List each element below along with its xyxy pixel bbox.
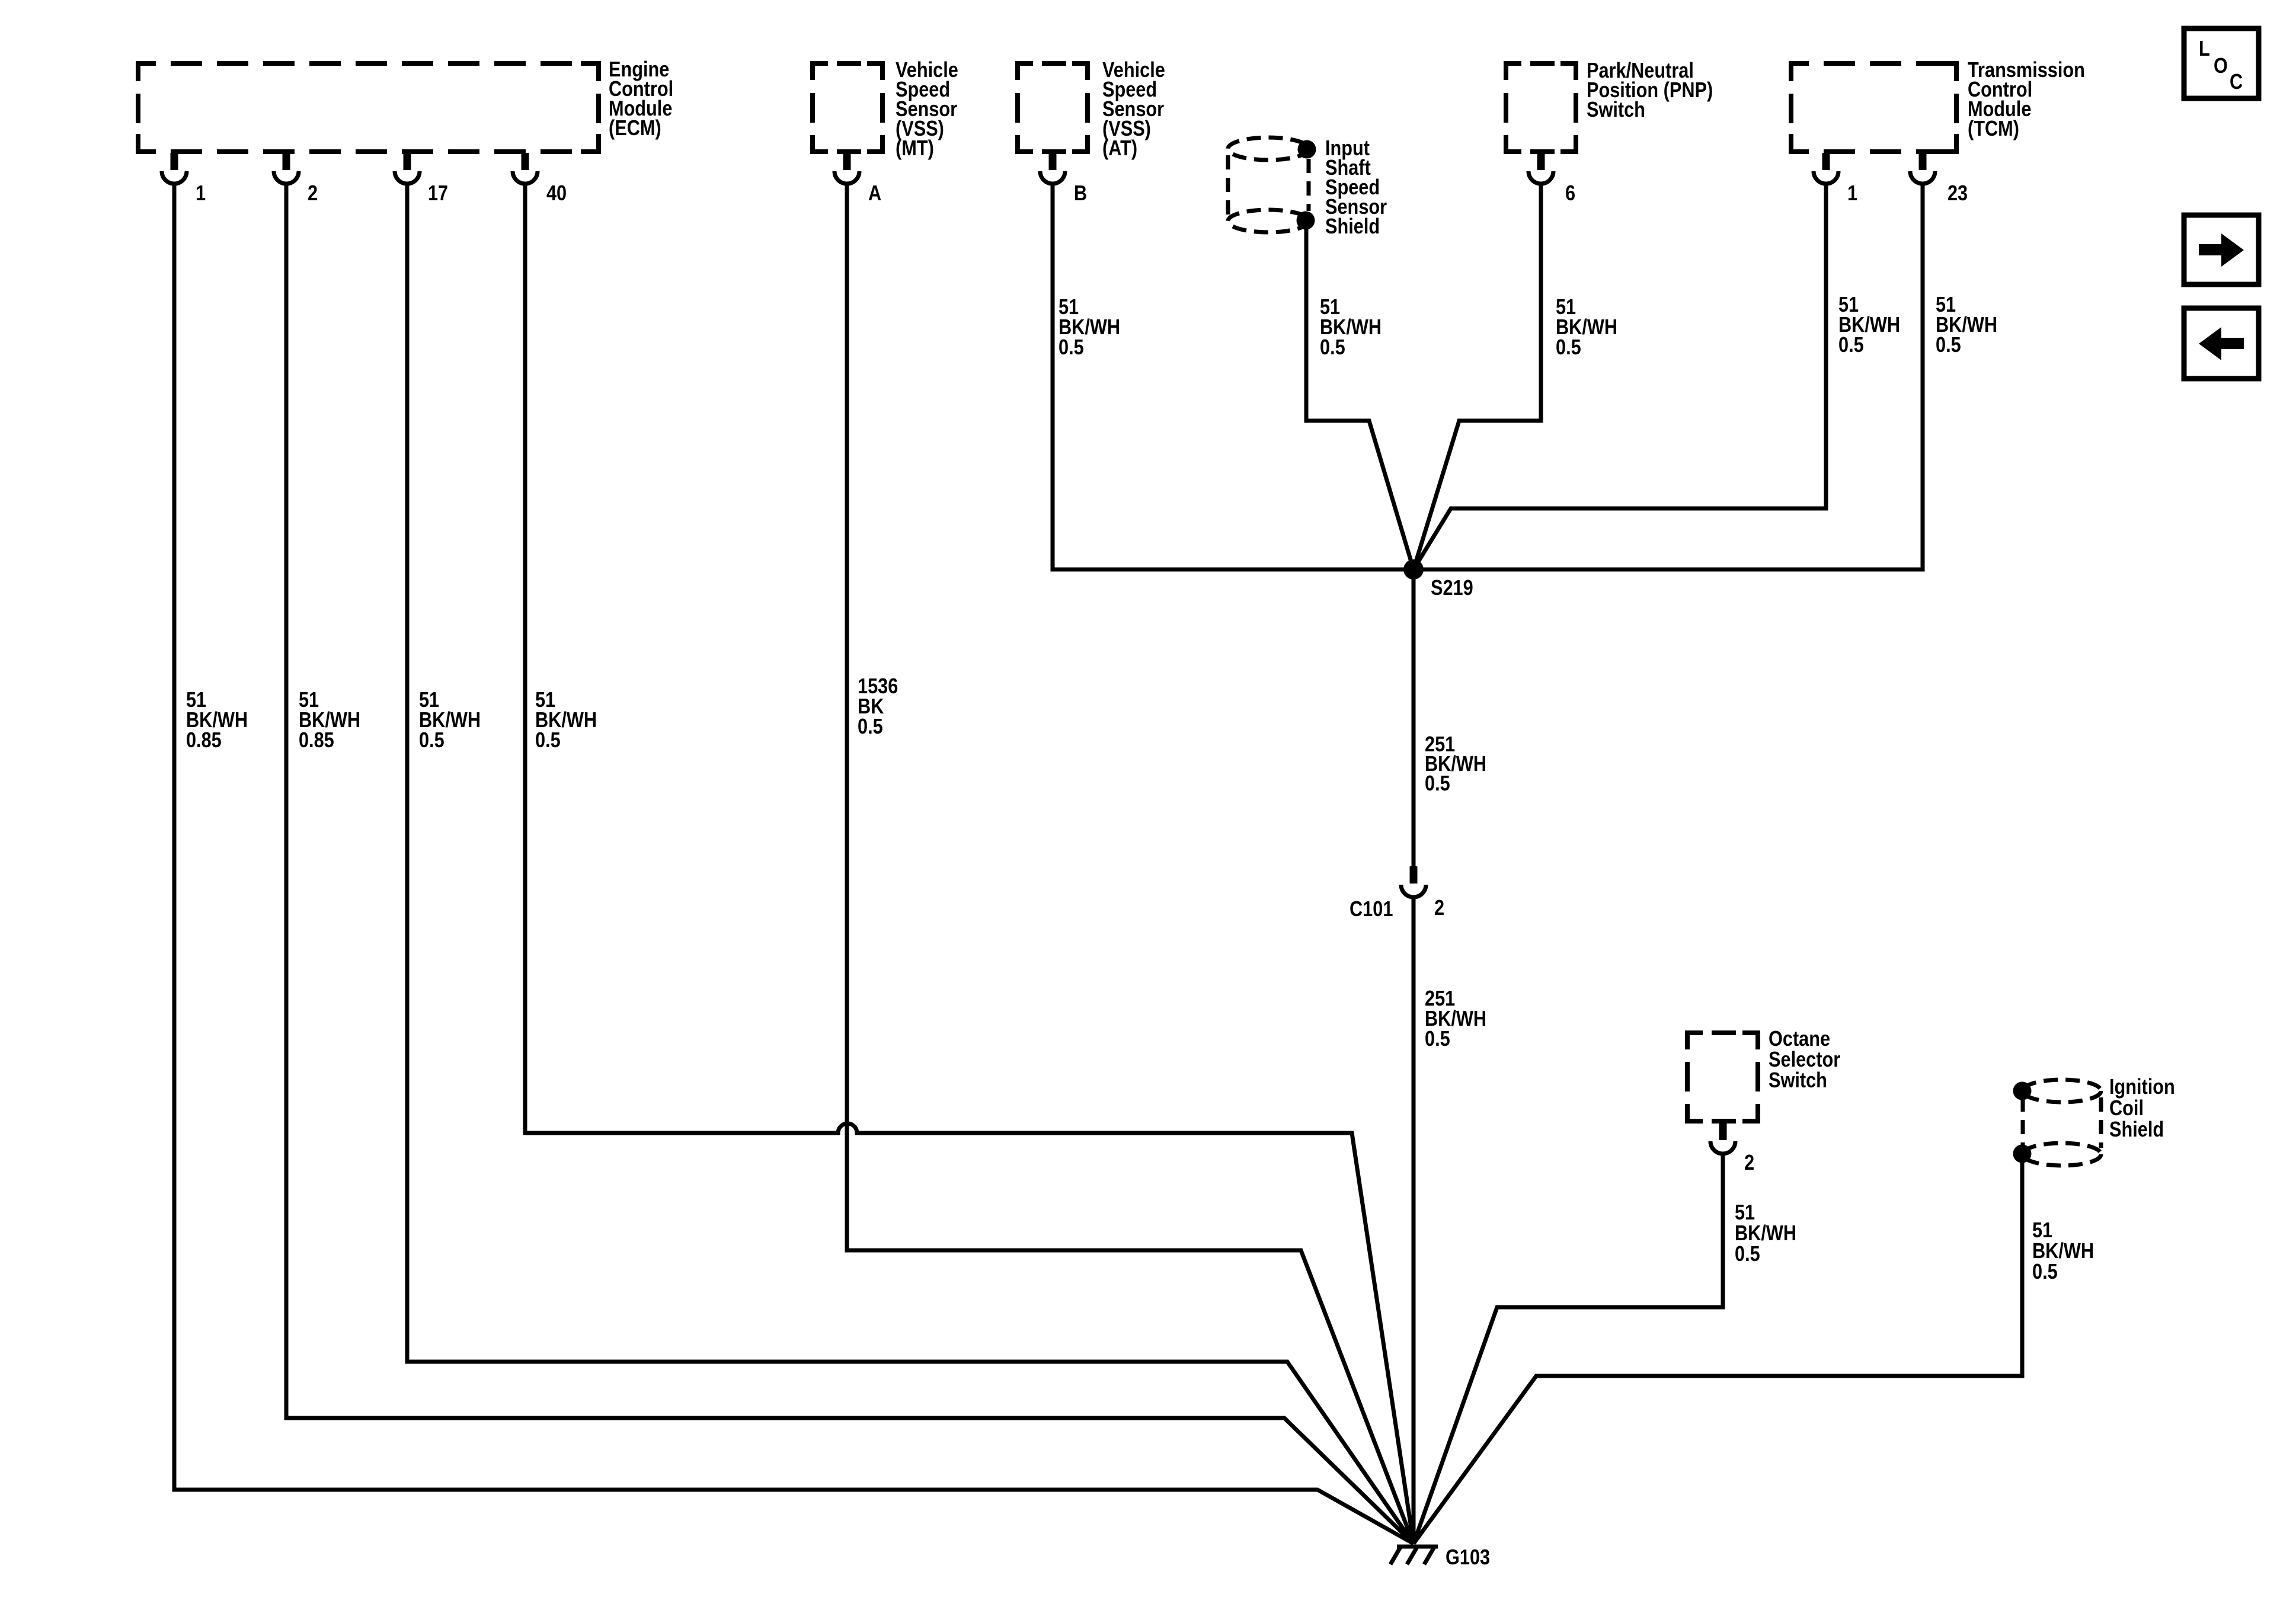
left arrow	[2199, 327, 2244, 360]
svg-text:Switch: Switch	[1769, 1068, 1827, 1092]
TCM dashed box	[1791, 63, 1956, 152]
svg-text:S219: S219	[1431, 575, 1473, 600]
input shaft speed sensor shield top terminal dot	[1298, 140, 1316, 159]
input shaft speed sensor shield right dashed side	[1307, 159, 1311, 211]
TCM pin 1 connector	[1814, 153, 1838, 184]
wire 51 BK/WH 0.5 from ignition coil shield to G103	[1414, 1154, 2022, 1544]
wire 51 BK/WH 0.5 from ECM pin 17 to G103	[407, 184, 1414, 1544]
svg-text:O: O	[2214, 53, 2228, 78]
svg-text:1: 1	[196, 181, 206, 205]
svg-text:40: 40	[546, 181, 567, 205]
svg-text:6: 6	[1565, 181, 1575, 205]
wire 51 BK/WH 0.85 from ECM pin 2 to G103	[286, 184, 1414, 1544]
ignition coil shield right dashed side	[2099, 1097, 2103, 1148]
PNP pin 6 connector	[1528, 153, 1553, 184]
ignition coil shield top terminal dot	[2013, 1082, 2032, 1100]
svg-text:0.85: 0.85	[186, 728, 222, 752]
wire 51 BK/WH 0.5 from TCM pin 1 to S219	[1414, 184, 1826, 569]
right arrow	[2199, 233, 2244, 267]
VSS AT pin B connector	[1040, 153, 1065, 184]
svg-text:0.85: 0.85	[299, 728, 334, 752]
svg-text:0.5: 0.5	[858, 714, 883, 738]
svg-text:Coil: Coil	[2109, 1096, 2144, 1120]
ground G103	[1390, 1546, 1438, 1564]
svg-text:Shield: Shield	[1325, 214, 1380, 238]
octane selector switch dashed box	[1687, 1033, 1758, 1121]
svg-text:0.5: 0.5	[419, 728, 445, 752]
connector C101	[1401, 866, 1426, 897]
svg-text:Ignition: Ignition	[2109, 1074, 2175, 1099]
TCM pin 23 connector	[1910, 153, 1935, 184]
svg-text:L: L	[2199, 36, 2210, 60]
ignition coil shield bottom terminal dot	[2013, 1145, 2032, 1163]
left arrow legend box	[2184, 308, 2259, 379]
octane pin 2 connector	[1710, 1123, 1735, 1154]
svg-text:0.5: 0.5	[1320, 335, 1345, 359]
svg-text:0.5: 0.5	[1059, 335, 1084, 359]
svg-text:(TCM): (TCM)	[1968, 116, 2019, 140]
svg-text:1: 1	[1847, 181, 1857, 205]
ECM pin 40 connector	[513, 153, 538, 184]
VSS MT dashed box	[813, 63, 882, 152]
ECM pin 1 connector	[162, 153, 187, 184]
svg-text:G103: G103	[1446, 1545, 1490, 1569]
svg-text:(AT): (AT)	[1102, 136, 1137, 160]
svg-text:2: 2	[1744, 1150, 1754, 1174]
svg-text:Shield: Shield	[2109, 1117, 2164, 1141]
svg-text:2: 2	[1434, 895, 1444, 920]
ECM pin 2 connector	[274, 153, 299, 184]
ECM module dashed box	[138, 63, 599, 152]
svg-text:0.5: 0.5	[1425, 1026, 1450, 1051]
svg-text:C: C	[2230, 69, 2243, 94]
svg-text:(MT): (MT)	[896, 136, 934, 160]
wire 51 BK/WH 0.5 from input shaft speed sensor shield to S219	[1306, 220, 1414, 569]
svg-text:0.5: 0.5	[2032, 1259, 2058, 1283]
ignition coil shield bottom dashed ellipse	[2023, 1143, 2101, 1166]
ignition coil shield top dashed ellipse	[2023, 1080, 2101, 1102]
wire 51 BK/WH 0.5 from PNP switch pin 6 to S219	[1414, 185, 1541, 569]
svg-text:Switch: Switch	[1587, 97, 1645, 121]
svg-text:0.5: 0.5	[535, 728, 561, 752]
svg-text:17: 17	[428, 181, 448, 205]
wire 251 BK/WH 0.5 from S219 to C101	[1412, 569, 1416, 868]
input shaft speed sensor shield bottom dashed ellipse	[1228, 210, 1309, 232]
svg-text:A: A	[868, 181, 881, 205]
ignition coil shield left dashed side	[2021, 1097, 2025, 1148]
PNP switch dashed box	[1506, 63, 1576, 152]
wire 51 BK/WH 0.85 from ECM pin 1 to G103	[174, 184, 1414, 1544]
svg-text:0.5: 0.5	[1425, 771, 1450, 795]
VSS AT dashed box	[1018, 63, 1088, 152]
svg-text:0.5: 0.5	[1838, 332, 1864, 357]
wire 51 BK/WH 0.5 from octane selector switch pin 2 to G103	[1414, 1154, 1723, 1544]
wire 251 BK/WH 0.5 from C101 to G103	[1412, 897, 1416, 1544]
wire 51 BK/WH 0.5 from TCM pin 23 to S219	[1414, 184, 1923, 569]
svg-text:0.5: 0.5	[1936, 332, 1961, 357]
wire 51 BK/WH 0.5 from VSS AT pin B to splice S219	[1053, 184, 1414, 569]
input shaft speed sensor shield left dashed side	[1226, 155, 1230, 215]
svg-text:0.5: 0.5	[1735, 1241, 1760, 1266]
right arrow legend box	[2184, 215, 2259, 284]
svg-text:23: 23	[1948, 181, 1968, 205]
LOC legend box	[2184, 28, 2259, 98]
input shaft speed sensor shield top dashed ellipse	[1228, 137, 1309, 160]
svg-text:B: B	[1074, 181, 1087, 205]
svg-text:(ECM): (ECM)	[609, 116, 661, 140]
svg-text:C101: C101	[1350, 897, 1393, 921]
splice S219	[1403, 559, 1424, 580]
svg-text:2: 2	[308, 181, 318, 205]
wire 51 BK/WH 0.5 from ECM pin 40 to G103 with hop over wire A	[525, 184, 1414, 1544]
svg-text:0.5: 0.5	[1556, 335, 1581, 359]
ECM pin 17 connector	[395, 153, 420, 184]
wire 1536 BK 0.5 from VSS MT pin A to G103	[847, 184, 1414, 1544]
VSS MT pin A connector	[834, 153, 859, 184]
input shaft speed sensor shield bottom terminal dot	[1297, 212, 1315, 230]
